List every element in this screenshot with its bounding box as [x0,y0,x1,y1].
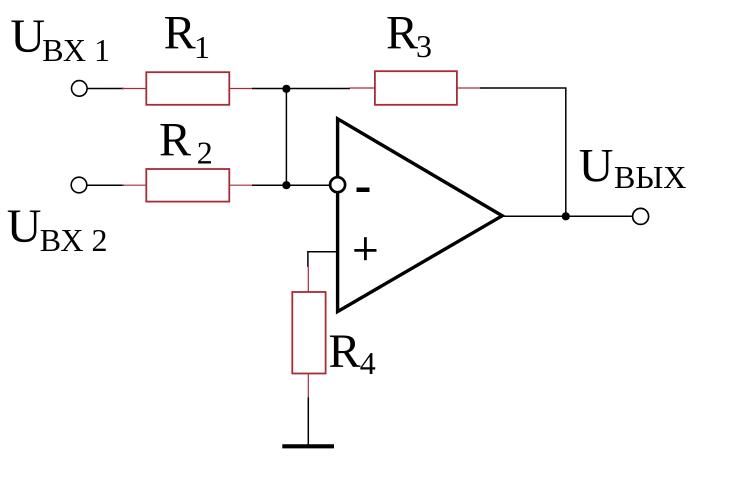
wire R4 to ground [307,398,309,447]
svg-text:R: R [159,113,191,166]
wire output [502,215,633,217]
node A junction dot [282,85,290,93]
label R4 [329,325,376,381]
node C junction dot [562,212,570,220]
wire input2 to R2 [87,184,124,186]
label U_BX1 [10,10,110,68]
wire R3 to output node [480,88,566,216]
svg-text:R: R [164,7,196,60]
resistor R1 [122,72,253,105]
svg-text:3: 3 [416,28,432,64]
svg-text:4: 4 [360,345,376,381]
svg-text:R: R [329,325,361,378]
op-amp U1 [330,119,502,312]
resistor R2 [122,169,253,202]
wire R1 to node A [252,88,350,90]
resistor R4 [292,266,325,398]
node B junction dot [282,181,290,189]
label U_BYX [579,139,687,195]
ground [282,444,334,448]
svg-text:ВХ 1: ВХ 1 [42,32,110,68]
input terminal 2 [71,177,87,193]
svg-text:U: U [10,10,45,63]
svg-text:2: 2 [197,135,213,171]
wire R2 to inverting input [252,184,330,186]
input terminal 1 [72,81,88,97]
svg-text:1: 1 [194,29,210,65]
wire non-inverting input [308,252,338,267]
label R3 [386,7,432,64]
label U_BX2 [7,200,108,258]
svg-text:U: U [579,139,614,192]
label R1 [164,7,210,66]
resistor R3 [350,71,482,105]
label R2 [159,113,213,170]
svg-text:U: U [7,200,42,253]
svg-text:ВЫХ: ВЫХ [614,159,686,195]
wire node A vertical to node B [285,89,287,186]
output terminal [633,208,649,224]
svg-text:ВХ 2: ВХ 2 [40,222,108,258]
wire input1 to R1 [87,88,124,90]
svg-text:R: R [386,7,418,60]
